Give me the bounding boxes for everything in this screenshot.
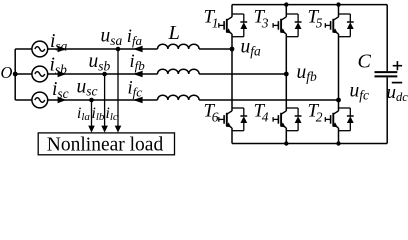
node bottom rail leg2 [284, 141, 288, 145]
wire [14, 49, 16, 100]
wire [285, 5, 287, 17]
AC source phase a [32, 41, 48, 57]
wire [104, 74, 106, 126]
wire [231, 128, 233, 144]
wire [338, 128, 340, 144]
transistor T4 [273, 108, 301, 131]
AC source phase b [32, 66, 48, 82]
inductor L phase c [158, 95, 200, 100]
node u_sb junction [102, 72, 107, 77]
label + [393, 65, 402, 67]
transistor T3 [273, 14, 301, 37]
node u_sc junction [89, 98, 94, 103]
wire bottom DC rail [232, 143, 387, 145]
wire [285, 74, 287, 111]
arrow i_fa [133, 46, 143, 53]
wire [15, 73, 32, 75]
node u_fa [230, 47, 235, 52]
wire [386, 5, 388, 72]
arrow i_la [115, 126, 122, 133]
node top rail leg2 [284, 2, 288, 6]
wire [338, 34, 340, 100]
wire [199, 99, 338, 101]
svg-text:Nonlinear load: Nonlinear load [47, 135, 164, 156]
arrow i_sa [58, 46, 67, 53]
wire [199, 48, 232, 50]
wire [338, 100, 340, 111]
inductor L phase a [158, 44, 200, 49]
node u_sa junction [116, 47, 121, 52]
wire [338, 5, 340, 17]
wire [231, 34, 233, 49]
nonlinear load box [38, 133, 174, 155]
wire [231, 49, 233, 111]
arrow i_lc [88, 126, 95, 133]
wire [15, 48, 32, 50]
wire [231, 5, 233, 17]
capacitor C [375, 71, 398, 73]
label minus [392, 82, 402, 84]
wire [48, 48, 158, 50]
wire [199, 73, 286, 75]
arrow i_lb [101, 126, 108, 133]
node u_fc [336, 98, 341, 103]
node bottom rail leg3 [336, 141, 340, 145]
wire [285, 128, 287, 144]
inductor L phase b [158, 69, 200, 74]
arrow i_sc [58, 97, 67, 104]
AC source phase c [32, 92, 48, 108]
arrow i_fb [133, 71, 143, 78]
transistor T5 [325, 14, 353, 37]
wire top DC rail [232, 4, 387, 6]
wire [117, 49, 119, 126]
node top rail leg3 [336, 2, 340, 6]
arrow i_sb [58, 71, 67, 78]
svg-text:L: L [168, 22, 180, 44]
wire [15, 99, 32, 101]
svg-text:O: O [1, 63, 13, 82]
wire [48, 73, 158, 75]
svg-text:C: C [358, 50, 372, 72]
wire [91, 100, 93, 126]
wire [386, 77, 388, 143]
wire [285, 34, 287, 74]
transistor T2 [325, 108, 353, 131]
node u_fb [284, 72, 289, 77]
transistor T1 [219, 14, 247, 37]
transistor T6 [219, 108, 247, 131]
wire [48, 99, 158, 101]
arrow i_fc [133, 97, 143, 104]
